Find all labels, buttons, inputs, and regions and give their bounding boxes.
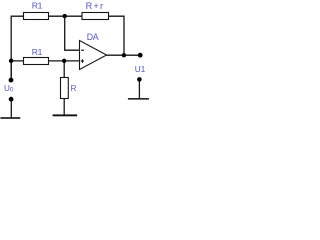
junction node at plus input row xyxy=(62,59,66,63)
ground left xyxy=(0,117,20,119)
svg-text:R1: R1 xyxy=(32,1,43,11)
op-amp DA xyxy=(80,32,107,70)
svg-text:U1: U1 xyxy=(135,65,146,74)
resistor R1 top xyxy=(24,1,49,20)
svg-text:R+r: R+r xyxy=(86,1,105,11)
node U0 upper terminal xyxy=(9,78,14,83)
junction node at top rail xyxy=(62,14,66,18)
junction node at op-amp output / feedback xyxy=(122,53,126,57)
node U1 lower terminal xyxy=(137,77,142,82)
wire from plus junction down to resistor R xyxy=(63,61,65,78)
wire U0 upper terminal stub xyxy=(10,61,12,80)
svg-text:U0: U0 xyxy=(4,84,14,93)
svg-text:R1: R1 xyxy=(32,47,43,57)
junction node at left rail / bottom row xyxy=(9,59,13,63)
wire from top junction down to minus input xyxy=(65,16,80,50)
wire resistor R bottom to middle ground xyxy=(63,98,65,115)
resistor R+r (feedback) xyxy=(82,1,109,20)
wire U1 lower terminal to right ground xyxy=(138,80,140,99)
node U1 output terminal xyxy=(138,53,143,58)
ground middle xyxy=(53,114,78,116)
resistor R1 bottom xyxy=(24,47,49,65)
svg-text:R: R xyxy=(71,84,77,93)
wire bottom R1 row to op-amp plus input xyxy=(11,60,79,62)
wire U0 lower terminal to left ground xyxy=(10,99,12,118)
svg-text:DA: DA xyxy=(87,32,99,42)
wire op-amp output to U1 terminal xyxy=(107,54,141,56)
node U0 lower terminal xyxy=(9,97,14,102)
resistor R vertical xyxy=(61,78,77,99)
ground right xyxy=(128,98,149,100)
wire top rail from left corner to right corner xyxy=(11,16,124,80)
